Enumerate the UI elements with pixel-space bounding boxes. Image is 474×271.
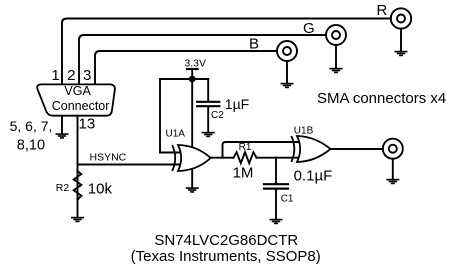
svg-text:R2: R2 — [56, 182, 70, 194]
svg-text:U1A: U1A — [166, 129, 186, 140]
svg-text:R1: R1 — [239, 142, 252, 153]
svg-text:SN74LVC2G86DCTR: SN74LVC2G86DCTR — [154, 232, 298, 249]
svg-text:B: B — [249, 36, 259, 53]
svg-text:SMA connectors x4: SMA connectors x4 — [317, 90, 446, 107]
svg-text:C2: C2 — [211, 110, 224, 121]
svg-text:1µF: 1µF — [225, 96, 249, 112]
svg-text:10k: 10k — [88, 180, 113, 197]
svg-text:3: 3 — [83, 67, 91, 84]
svg-text:2: 2 — [67, 67, 75, 84]
svg-text:3.3V: 3.3V — [184, 57, 206, 69]
svg-text:VGA: VGA — [64, 84, 91, 98]
svg-text:1: 1 — [51, 67, 59, 84]
svg-text:13: 13 — [79, 116, 96, 133]
svg-text:G: G — [303, 20, 315, 37]
svg-text:Connector: Connector — [52, 99, 110, 113]
svg-text:8,10: 8,10 — [17, 138, 45, 154]
svg-text:1M: 1M — [233, 165, 254, 182]
svg-text:HSYNC: HSYNC — [90, 151, 127, 163]
svg-text:0.1µF: 0.1µF — [294, 168, 333, 185]
svg-text:5, 6, 7,: 5, 6, 7, — [10, 118, 53, 134]
svg-text:C1: C1 — [281, 194, 294, 205]
svg-text:U1B: U1B — [294, 126, 314, 137]
svg-text:R: R — [377, 2, 388, 19]
svg-text:(Texas Instruments, SSOP8): (Texas Instruments, SSOP8) — [131, 248, 321, 265]
